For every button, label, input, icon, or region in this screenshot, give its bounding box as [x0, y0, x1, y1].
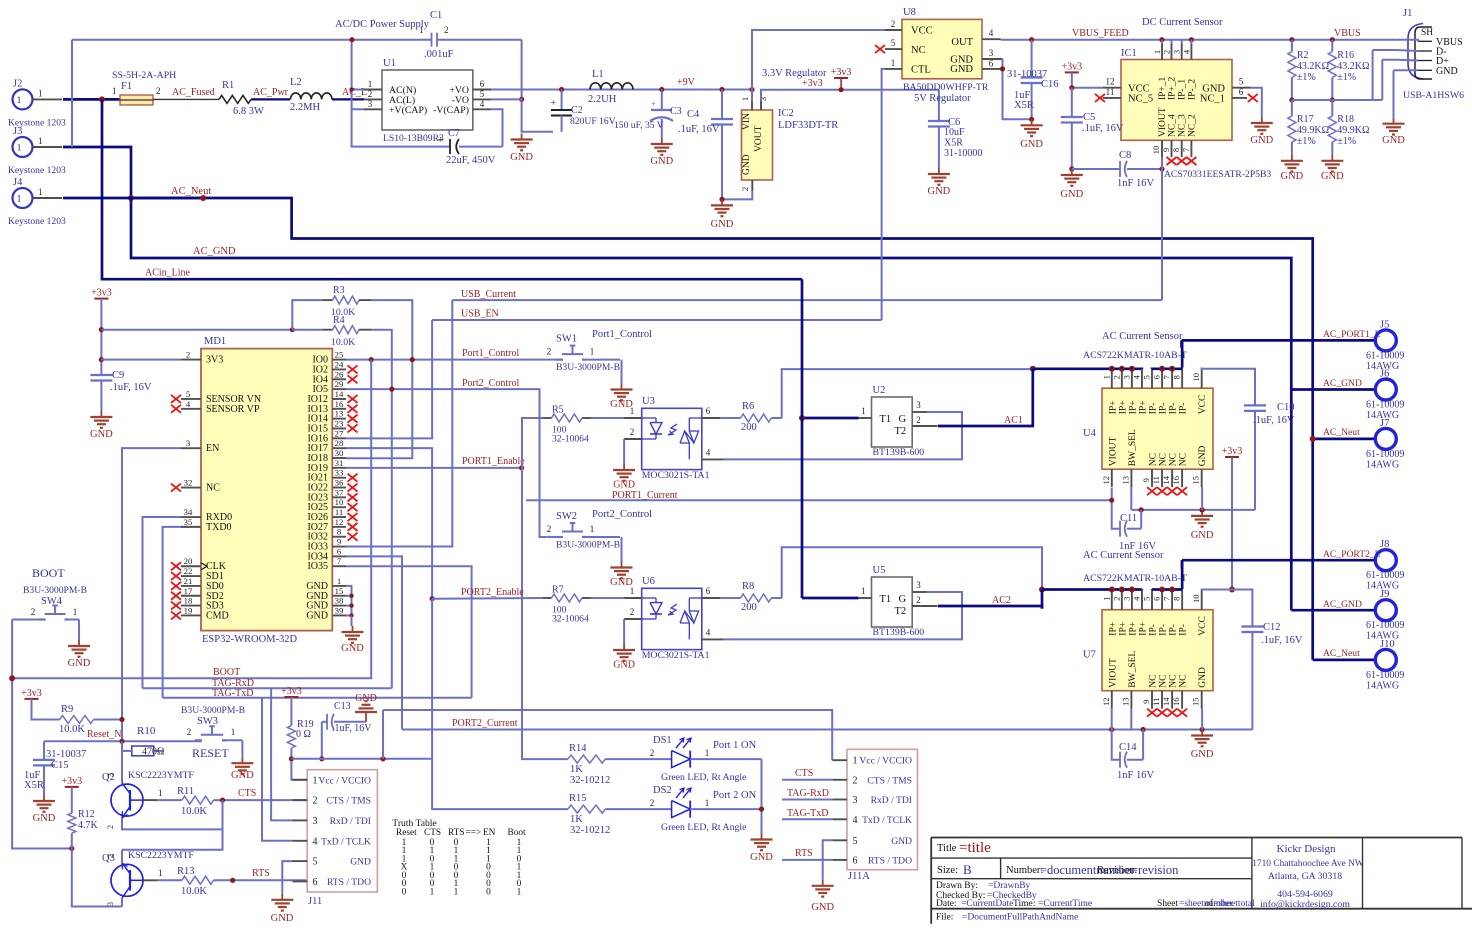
svg-text:TxD / TCLK: TxD / TCLK — [862, 815, 912, 826]
svg-text:1: 1 — [454, 887, 459, 897]
svg-text:14: 14 — [1161, 475, 1171, 484]
svg-text:1: 1 — [73, 607, 78, 617]
svg-text:IP+: IP+ — [1138, 622, 1148, 636]
svg-text:14: 14 — [335, 389, 344, 399]
svg-text:info@kickrdesign.com: info@kickrdesign.com — [1260, 899, 1350, 910]
svg-text:J7: J7 — [1380, 418, 1389, 429]
svg-text:1: 1 — [705, 798, 710, 808]
svg-text:Port2_Control: Port2_Control — [462, 378, 519, 389]
svg-text:1: 1 — [740, 97, 750, 101]
svg-text:1: 1 — [158, 788, 163, 798]
svg-text:25: 25 — [335, 350, 344, 360]
svg-text:NC: NC — [1149, 453, 1159, 466]
svg-text:1: 1 — [430, 887, 435, 897]
svg-text:C7: C7 — [448, 128, 460, 139]
svg-text:Vcc / VCCIO: Vcc / VCCIO — [318, 775, 371, 786]
svg-text:18: 18 — [184, 596, 193, 606]
svg-text:RTS / TDO: RTS / TDO — [327, 877, 371, 888]
svg-text:L1: L1 — [592, 69, 604, 80]
svg-text:2: 2 — [650, 798, 655, 808]
svg-text:SW1: SW1 — [556, 334, 577, 345]
svg-text:4: 4 — [313, 836, 318, 847]
svg-text:PORT2_Enable: PORT2_Enable — [461, 587, 524, 598]
svg-text:C4: C4 — [687, 109, 700, 120]
svg-text:GND: GND — [891, 836, 912, 847]
svg-text:NC: NC — [206, 483, 220, 494]
svg-text:DS1: DS1 — [653, 735, 672, 746]
svg-text:1: 1 — [861, 586, 866, 596]
svg-text:GND: GND — [650, 156, 673, 167]
svg-text:1: 1 — [891, 58, 896, 68]
svg-text:R11: R11 — [177, 786, 194, 797]
svg-text:15: 15 — [1191, 476, 1201, 485]
svg-text:AC/DC Power Supply: AC/DC Power Supply — [335, 19, 430, 30]
svg-text:U2: U2 — [873, 385, 886, 396]
svg-text:RTS: RTS — [448, 828, 465, 838]
svg-text:1K: 1K — [570, 764, 583, 775]
svg-text:12: 12 — [1101, 476, 1111, 485]
svg-text:RTS: RTS — [252, 868, 270, 879]
svg-text:SENSOR VP: SENSOR VP — [206, 404, 260, 415]
svg-text:U7: U7 — [1083, 650, 1096, 661]
svg-text:GND: GND — [1436, 66, 1458, 77]
svg-text:Port1_Control: Port1_Control — [462, 348, 519, 359]
svg-text:2: 2 — [186, 350, 190, 360]
svg-text:32-10064: 32-10064 — [552, 614, 589, 625]
svg-text:+V(CAP): +V(CAP) — [389, 105, 427, 116]
svg-text:NC: NC — [911, 45, 926, 56]
svg-text:14: 14 — [1161, 697, 1171, 706]
svg-text:10uF: 10uF — [944, 127, 965, 138]
svg-text:6: 6 — [1152, 375, 1162, 379]
svg-text:1: 1 — [861, 406, 866, 416]
svg-text:9: 9 — [337, 537, 341, 547]
svg-text:ACS722KMATR-10AB-T: ACS722KMATR-10AB-T — [1083, 350, 1187, 361]
svg-text:1: 1 — [1101, 375, 1111, 379]
svg-text:14AWG: 14AWG — [1366, 459, 1399, 470]
svg-text:6: 6 — [313, 877, 318, 888]
svg-text:2: 2 — [1162, 50, 1172, 54]
svg-text:1: 1 — [158, 868, 163, 878]
svg-text:3: 3 — [186, 438, 190, 448]
svg-text:Kickr Design: Kickr Design — [1277, 843, 1336, 855]
svg-text:USB_EN: USB_EN — [461, 309, 499, 320]
svg-text:7: 7 — [337, 556, 342, 566]
svg-text:GND: GND — [1281, 171, 1304, 182]
svg-text:3: 3 — [1172, 50, 1182, 54]
svg-text:R5: R5 — [552, 405, 564, 416]
svg-text:Time:: Time: — [1013, 899, 1035, 909]
svg-text:2: 2 — [547, 347, 552, 357]
svg-text:BW_SEL: BW_SEL — [1128, 429, 1138, 466]
svg-text:2: 2 — [630, 427, 635, 437]
svg-text:Port 1 ON: Port 1 ON — [713, 740, 757, 751]
svg-text:VIOUT: VIOUT — [1108, 436, 1118, 466]
svg-text:3: 3 — [916, 400, 921, 410]
svg-text:10.0K: 10.0K — [181, 886, 207, 897]
svg-text:B3U-3000PM-B: B3U-3000PM-B — [556, 540, 620, 551]
svg-text:R15: R15 — [569, 793, 587, 804]
svg-text:±1%: ±1% — [1297, 72, 1316, 83]
svg-text:J2: J2 — [13, 78, 22, 89]
svg-text:C10: C10 — [1277, 402, 1295, 413]
svg-text:AC_Neut: AC_Neut — [1323, 648, 1360, 659]
svg-text:T1: T1 — [880, 594, 892, 605]
svg-text:2: 2 — [1111, 597, 1121, 601]
svg-text:R3: R3 — [333, 285, 345, 296]
svg-text:2: 2 — [106, 825, 115, 829]
svg-text:File:: File: — [936, 913, 953, 923]
svg-text:=DocumentFullPathAndName: =DocumentFullPathAndName — [962, 913, 1078, 923]
svg-text:U4: U4 — [1083, 428, 1097, 439]
svg-text:+3v3: +3v3 — [1061, 61, 1082, 72]
svg-text:J8: J8 — [1380, 539, 1389, 550]
svg-text:BOOT: BOOT — [32, 566, 65, 580]
svg-text:CTS: CTS — [238, 788, 256, 799]
svg-text:14AWG: 14AWG — [1366, 680, 1399, 691]
svg-text:4: 4 — [989, 28, 994, 38]
svg-text:1: 1 — [231, 727, 236, 737]
svg-text:R18: R18 — [1337, 114, 1354, 125]
svg-text:3: 3 — [853, 795, 858, 806]
svg-text:2: 2 — [368, 89, 373, 99]
svg-text:+3v3: +3v3 — [21, 688, 42, 699]
svg-text:10: 10 — [1191, 373, 1201, 382]
svg-text:X5R: X5R — [1014, 100, 1034, 111]
svg-text:27: 27 — [335, 428, 344, 438]
svg-text:Port1_Control: Port1_Control — [592, 329, 652, 340]
svg-text:+: + — [550, 98, 556, 109]
svg-text:VBUS: VBUS — [1334, 28, 1361, 39]
svg-text:KSC2223YMTF: KSC2223YMTF — [128, 770, 194, 781]
svg-text:32-10064: 32-10064 — [552, 434, 589, 445]
svg-text:5: 5 — [891, 38, 896, 48]
svg-text:1: 1 — [705, 748, 710, 758]
svg-text:1K: 1K — [570, 814, 583, 825]
svg-text:C12: C12 — [1263, 622, 1281, 633]
svg-text:CMD: CMD — [206, 610, 229, 621]
svg-text:=sheettotal: =sheettotal — [1213, 899, 1255, 909]
svg-text:PORT2_Current: PORT2_Current — [452, 718, 518, 729]
svg-text:BT139B-600: BT139B-600 — [873, 627, 925, 638]
svg-text:20: 20 — [184, 556, 193, 566]
svg-text:12: 12 — [335, 517, 344, 527]
svg-text:ACS70331EESATR-2P5B3: ACS70331EESATR-2P5B3 — [1164, 169, 1271, 180]
svg-text:=CurrentTime: =CurrentTime — [1038, 899, 1092, 909]
svg-text:NC_5: NC_5 — [1128, 94, 1153, 105]
svg-text:EN: EN — [206, 443, 219, 454]
svg-text:=CurrentDate: =CurrentDate — [961, 899, 1013, 909]
svg-text:B3U-3000PM-B: B3U-3000PM-B — [23, 585, 87, 596]
svg-text:4.7K: 4.7K — [78, 820, 99, 831]
svg-text:11: 11 — [335, 507, 343, 517]
svg-text:MOC3021S-TA1: MOC3021S-TA1 — [642, 470, 710, 481]
svg-text:4: 4 — [186, 399, 191, 409]
svg-text:C15: C15 — [51, 760, 69, 771]
svg-text:C9: C9 — [112, 370, 124, 381]
svg-text:BOOT: BOOT — [213, 667, 240, 678]
svg-text:U8: U8 — [903, 7, 916, 18]
svg-text:Green LED, Rt Angle: Green LED, Rt Angle — [661, 822, 747, 833]
svg-text:NC: NC — [1169, 453, 1179, 466]
svg-text:R13: R13 — [177, 866, 195, 877]
svg-text:13: 13 — [335, 409, 344, 419]
svg-text:BT139B-600: BT139B-600 — [873, 447, 925, 458]
svg-text:1: 1 — [17, 143, 22, 153]
svg-text:GND: GND — [742, 154, 752, 175]
svg-text:GND: GND — [950, 64, 973, 75]
svg-text:1: 1 — [38, 187, 43, 197]
svg-text:Title: Title — [937, 843, 957, 854]
svg-text:9: 9 — [1141, 478, 1151, 482]
svg-text:GND: GND — [33, 813, 56, 824]
svg-text:1nF 16V: 1nF 16V — [1117, 770, 1154, 781]
svg-text:0: 0 — [486, 887, 491, 897]
svg-text:IP+: IP+ — [1108, 622, 1118, 636]
svg-text:1: 1 — [337, 576, 341, 586]
svg-text:OUT: OUT — [951, 37, 973, 48]
svg-text:B3U-3000PM-B: B3U-3000PM-B — [556, 362, 620, 373]
svg-text:32-10212: 32-10212 — [570, 825, 610, 836]
svg-text:RTS: RTS — [795, 848, 813, 859]
svg-text:2: 2 — [916, 595, 921, 605]
svg-text:.1uF, 16V: .1uF, 16V — [1253, 415, 1295, 426]
svg-text:MOC3021S-TA1: MOC3021S-TA1 — [642, 650, 710, 661]
svg-text:EN: EN — [483, 828, 496, 838]
svg-text:L2: L2 — [290, 77, 302, 88]
svg-text:IP+: IP+ — [1128, 400, 1138, 414]
svg-text:6: 6 — [989, 59, 994, 69]
svg-text:1: 1 — [590, 524, 595, 534]
svg-text:49.9KΩ: 49.9KΩ — [1337, 125, 1369, 136]
svg-text:32: 32 — [184, 478, 193, 488]
svg-text:NC: NC — [1159, 453, 1169, 466]
svg-text:36: 36 — [335, 478, 344, 488]
svg-text:USB-A1HSW6: USB-A1HSW6 — [1403, 90, 1464, 101]
svg-text:2: 2 — [31, 607, 36, 617]
svg-text:32-10212: 32-10212 — [570, 775, 610, 786]
svg-text:3V3: 3V3 — [206, 355, 223, 366]
svg-text:R16: R16 — [1337, 50, 1354, 61]
svg-text:39: 39 — [335, 605, 344, 615]
svg-text:150 uF, 35 V: 150 uF, 35 V — [614, 120, 664, 131]
svg-text:VIOUT: VIOUT — [1108, 658, 1118, 688]
svg-text:J3: J3 — [13, 126, 22, 137]
svg-text:-V(CAP): -V(CAP) — [433, 105, 469, 116]
svg-text:ESP32-WROOM-32D: ESP32-WROOM-32D — [202, 634, 298, 645]
svg-text:GND: GND — [613, 480, 635, 491]
svg-text:AC_GND: AC_GND — [1323, 378, 1362, 389]
svg-text:3: 3 — [106, 773, 115, 777]
svg-text:GND: GND — [1250, 135, 1273, 146]
svg-text:2: 2 — [853, 775, 858, 786]
svg-text:X5R: X5R — [24, 780, 44, 791]
svg-text:38: 38 — [335, 596, 344, 606]
svg-text:G: G — [899, 414, 907, 425]
svg-text:±1%: ±1% — [1337, 136, 1356, 147]
svg-text:R12: R12 — [78, 809, 95, 820]
svg-text:C8: C8 — [1119, 150, 1131, 161]
svg-text:4: 4 — [1181, 49, 1191, 54]
svg-text:GND: GND — [271, 913, 294, 924]
svg-text:NC: NC — [1179, 674, 1189, 687]
svg-text:4: 4 — [480, 99, 485, 109]
svg-text:Sheet: Sheet — [1157, 899, 1178, 909]
svg-text:VCC: VCC — [1198, 616, 1208, 636]
svg-text:43.2KΩ: 43.2KΩ — [1297, 61, 1329, 72]
svg-text:IP+: IP+ — [1128, 622, 1138, 636]
svg-text:=DrawnBy: =DrawnBy — [988, 881, 1031, 891]
svg-text:11: 11 — [1151, 476, 1161, 484]
svg-text:.1uF, 16V: .1uF, 16V — [110, 382, 152, 393]
svg-text:GND: GND — [1198, 445, 1208, 466]
svg-text:C16: C16 — [1041, 79, 1059, 90]
svg-text:GND: GND — [355, 693, 377, 704]
svg-text:AC_GND: AC_GND — [1323, 599, 1362, 610]
svg-text:IP-: IP- — [1149, 403, 1159, 415]
svg-text:5: 5 — [186, 389, 190, 399]
svg-text:GND: GND — [231, 770, 254, 781]
svg-text:U3: U3 — [642, 396, 655, 407]
svg-text:IC1: IC1 — [1121, 48, 1137, 59]
svg-text:NC: NC — [1169, 674, 1179, 687]
svg-text:C11: C11 — [1120, 513, 1137, 524]
svg-text:4: 4 — [853, 815, 858, 826]
svg-text:8: 8 — [1172, 375, 1182, 379]
svg-text:+: + — [651, 99, 656, 109]
svg-text:Port2_Control: Port2_Control — [592, 509, 652, 520]
svg-text:43.2KΩ: 43.2KΩ — [1337, 61, 1369, 72]
svg-text:1: 1 — [853, 756, 858, 767]
svg-text:J11: J11 — [308, 896, 322, 907]
svg-text:C1: C1 — [430, 10, 442, 21]
svg-text:KSC2223YMTF: KSC2223YMTF — [128, 850, 194, 861]
svg-text:B3U-3000PM-B: B3U-3000PM-B — [181, 705, 245, 716]
svg-text:5V Regulator: 5V Regulator — [914, 93, 971, 104]
svg-text:C2: C2 — [571, 105, 583, 116]
svg-text:IP-_1: IP-_1 — [1178, 79, 1188, 100]
svg-text:GND: GND — [1382, 135, 1405, 146]
svg-text:5: 5 — [1142, 597, 1152, 601]
svg-text:GND: GND — [350, 857, 371, 868]
svg-text:=revision: =revision — [1131, 863, 1179, 877]
svg-text:U5: U5 — [873, 565, 886, 576]
svg-text:R2: R2 — [1297, 50, 1309, 61]
svg-text:1: 1 — [630, 586, 635, 596]
svg-text:IP+_2: IP+_2 — [1168, 76, 1178, 100]
svg-text:U6: U6 — [642, 576, 655, 587]
svg-text:PORT1_Enable: PORT1_Enable — [462, 456, 525, 467]
svg-text:1: 1 — [419, 25, 424, 35]
svg-text:C14: C14 — [1119, 742, 1137, 753]
svg-text:Reset: Reset — [396, 828, 417, 838]
svg-text:R8: R8 — [742, 581, 754, 592]
svg-text:3: 3 — [989, 48, 994, 58]
svg-text:7: 7 — [1162, 375, 1172, 379]
svg-text:13: 13 — [1120, 697, 1130, 706]
svg-text:17: 17 — [184, 586, 193, 596]
svg-text:J11A: J11A — [848, 871, 870, 882]
svg-text:R7: R7 — [552, 585, 564, 596]
svg-text:J10: J10 — [1380, 639, 1395, 650]
svg-text:AC_Pwr: AC_Pwr — [253, 87, 289, 98]
svg-text:10: 10 — [1191, 594, 1201, 603]
svg-text:NC: NC — [1159, 674, 1169, 687]
svg-text:IP-_2: IP-_2 — [1187, 79, 1197, 100]
svg-text:CTS: CTS — [795, 768, 813, 779]
svg-text:GND: GND — [1198, 667, 1208, 688]
svg-text:1: 1 — [17, 194, 22, 204]
svg-text:31-10037: 31-10037 — [46, 749, 86, 760]
svg-text:AC_PORT2_L: AC_PORT2_L — [1323, 549, 1381, 560]
svg-text:2.2MH: 2.2MH — [290, 102, 320, 113]
svg-text:RxD / TDI: RxD / TDI — [871, 795, 912, 806]
svg-text:GND: GND — [613, 660, 635, 671]
svg-text:NC_3: NC_3 — [1178, 114, 1188, 137]
svg-text:+3v3: +3v3 — [91, 288, 112, 299]
svg-text:NC_2: NC_2 — [1188, 114, 1198, 137]
svg-text:SH: SH — [1421, 28, 1433, 38]
svg-text:10.0K: 10.0K — [331, 337, 355, 348]
svg-text:NC: NC — [1179, 453, 1189, 466]
svg-text:T2: T2 — [895, 606, 907, 617]
svg-text:IP+: IP+ — [1108, 400, 1118, 414]
svg-text:61-10009: 61-10009 — [1366, 400, 1404, 411]
svg-text:IO35: IO35 — [307, 561, 328, 572]
svg-text:G: G — [899, 594, 907, 605]
svg-text:AC_PORT1_L: AC_PORT1_L — [1323, 329, 1381, 340]
svg-text:DC Current Sensor: DC Current Sensor — [1142, 17, 1223, 28]
svg-text:10: 10 — [1151, 146, 1161, 155]
svg-text:6: 6 — [706, 586, 711, 596]
svg-text:19: 19 — [184, 605, 193, 615]
svg-text:.1uF, 16V: .1uF, 16V — [1082, 123, 1124, 134]
svg-text:9: 9 — [1141, 700, 1151, 704]
svg-text:NC_1: NC_1 — [1200, 94, 1225, 105]
svg-text:GND: GND — [68, 658, 91, 669]
svg-text:B: B — [963, 862, 972, 877]
svg-text:Keystone 1203: Keystone 1203 — [8, 165, 66, 176]
svg-text:4: 4 — [1131, 596, 1141, 601]
svg-text:IP+: IP+ — [1118, 400, 1128, 414]
svg-text:CTS: CTS — [424, 828, 441, 838]
svg-text:R9: R9 — [61, 704, 73, 715]
svg-text:8: 8 — [337, 527, 342, 537]
svg-text:ACS722KMATR-10AB-T: ACS722KMATR-10AB-T — [1083, 573, 1187, 584]
svg-text:11: 11 — [1106, 87, 1115, 97]
svg-text:+3v3: +3v3 — [802, 78, 823, 89]
svg-text:61-10009: 61-10009 — [1366, 570, 1404, 581]
svg-text:R4: R4 — [333, 315, 345, 326]
svg-text:12: 12 — [1106, 77, 1115, 87]
svg-text:GND: GND — [1020, 139, 1043, 150]
svg-text:2: 2 — [1111, 375, 1121, 379]
svg-text:±1%: ±1% — [1337, 72, 1356, 83]
svg-text:Date:: Date: — [936, 899, 957, 909]
svg-text:VIOUT: VIOUT — [1158, 107, 1168, 137]
svg-text:2: 2 — [891, 19, 896, 29]
svg-text:CTS / TMS: CTS / TMS — [326, 796, 371, 807]
svg-text:15: 15 — [1191, 697, 1201, 706]
svg-text:2: 2 — [916, 415, 921, 425]
svg-text:LDF33DT-TR: LDF33DT-TR — [778, 120, 838, 131]
svg-text:2: 2 — [313, 796, 318, 807]
svg-text:C5: C5 — [1083, 112, 1095, 123]
svg-text:T2: T2 — [895, 426, 907, 437]
svg-text:VBUS_FEED: VBUS_FEED — [1072, 28, 1129, 39]
svg-text:61-10009: 61-10009 — [1366, 620, 1404, 631]
svg-text:CTL: CTL — [911, 65, 931, 76]
